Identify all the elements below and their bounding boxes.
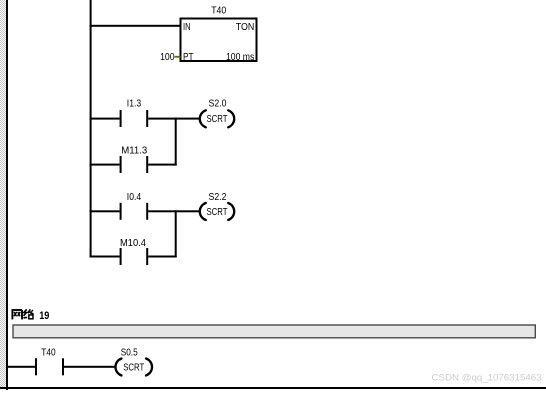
svg-text:SCRT: SCRT xyxy=(123,361,144,373)
svg-text:M11.3: M11.3 xyxy=(121,145,147,157)
svg-text:S2.0: S2.0 xyxy=(209,98,227,110)
network comment bar xyxy=(13,325,535,338)
wire: contact T40 to coil S0.5 xyxy=(64,366,116,368)
svg-text:TON: TON xyxy=(236,21,255,33)
svg-text:I0.4: I0.4 xyxy=(127,191,142,203)
svg-text:100 ms: 100 ms xyxy=(226,51,254,63)
svg-text:S0.5: S0.5 xyxy=(121,347,138,359)
svg-text:T40: T40 xyxy=(41,347,56,359)
wire: contact I0.4 to coil S2.2 xyxy=(148,210,200,212)
wire: rail to contact M11.3 xyxy=(90,164,120,166)
svg-text:S2.2: S2.2 xyxy=(209,191,227,203)
svg-text:T40: T40 xyxy=(211,5,226,17)
network 19 title: glyph 络 xyxy=(23,309,33,319)
svg-text:PT: PT xyxy=(183,51,194,63)
wire: branch junction down to M11.3 rung xyxy=(175,118,177,166)
wire: contact I1.3 to coil S2.0 xyxy=(148,118,200,120)
left power rail (network 18) xyxy=(90,0,92,258)
svg-text:M10.4: M10.4 xyxy=(120,237,146,249)
contact M10.4 xyxy=(120,248,149,265)
coil S2.2 (SCRT) xyxy=(200,203,234,220)
svg-text:IN: IN xyxy=(183,21,191,33)
wire: contact M10.4 to branch junction xyxy=(148,256,177,258)
wire: rail to contact I1.3 xyxy=(90,118,120,120)
wire: rail to timer T40 IN input xyxy=(90,25,180,27)
svg-text:CSDN @qq_1076315463: CSDN @qq_1076315463 xyxy=(432,372,542,383)
coil S2.0 (SCRT) xyxy=(200,110,234,127)
svg-text:I1.3: I1.3 xyxy=(127,98,142,110)
window left border xyxy=(6,0,8,390)
contact M11.3 xyxy=(120,156,149,173)
coil S0.5 (SCRT) xyxy=(115,359,152,376)
svg-text:19: 19 xyxy=(39,310,49,322)
contact I1.3 xyxy=(120,110,149,127)
wire: left border to contact T40 xyxy=(8,366,35,368)
wire: branch junction down to M10.4 rung xyxy=(175,210,177,257)
network 19 title: glyph 网 xyxy=(12,310,23,320)
svg-text:SCRT: SCRT xyxy=(207,206,228,218)
svg-text:100: 100 xyxy=(160,51,175,63)
svg-text:SCRT: SCRT xyxy=(207,113,228,125)
contact T40 xyxy=(35,358,64,375)
wire: rail to contact M10.4 xyxy=(90,256,120,258)
bottom window border xyxy=(0,387,546,389)
wire: rail to contact I0.4 xyxy=(90,210,120,212)
timer U: T40 TON box xyxy=(181,19,257,62)
editor left margin strip xyxy=(0,0,6,387)
contact I0.4 xyxy=(120,203,149,220)
wire: PT input tick xyxy=(175,56,181,58)
wire: contact M11.3 to branch junction xyxy=(148,164,177,166)
